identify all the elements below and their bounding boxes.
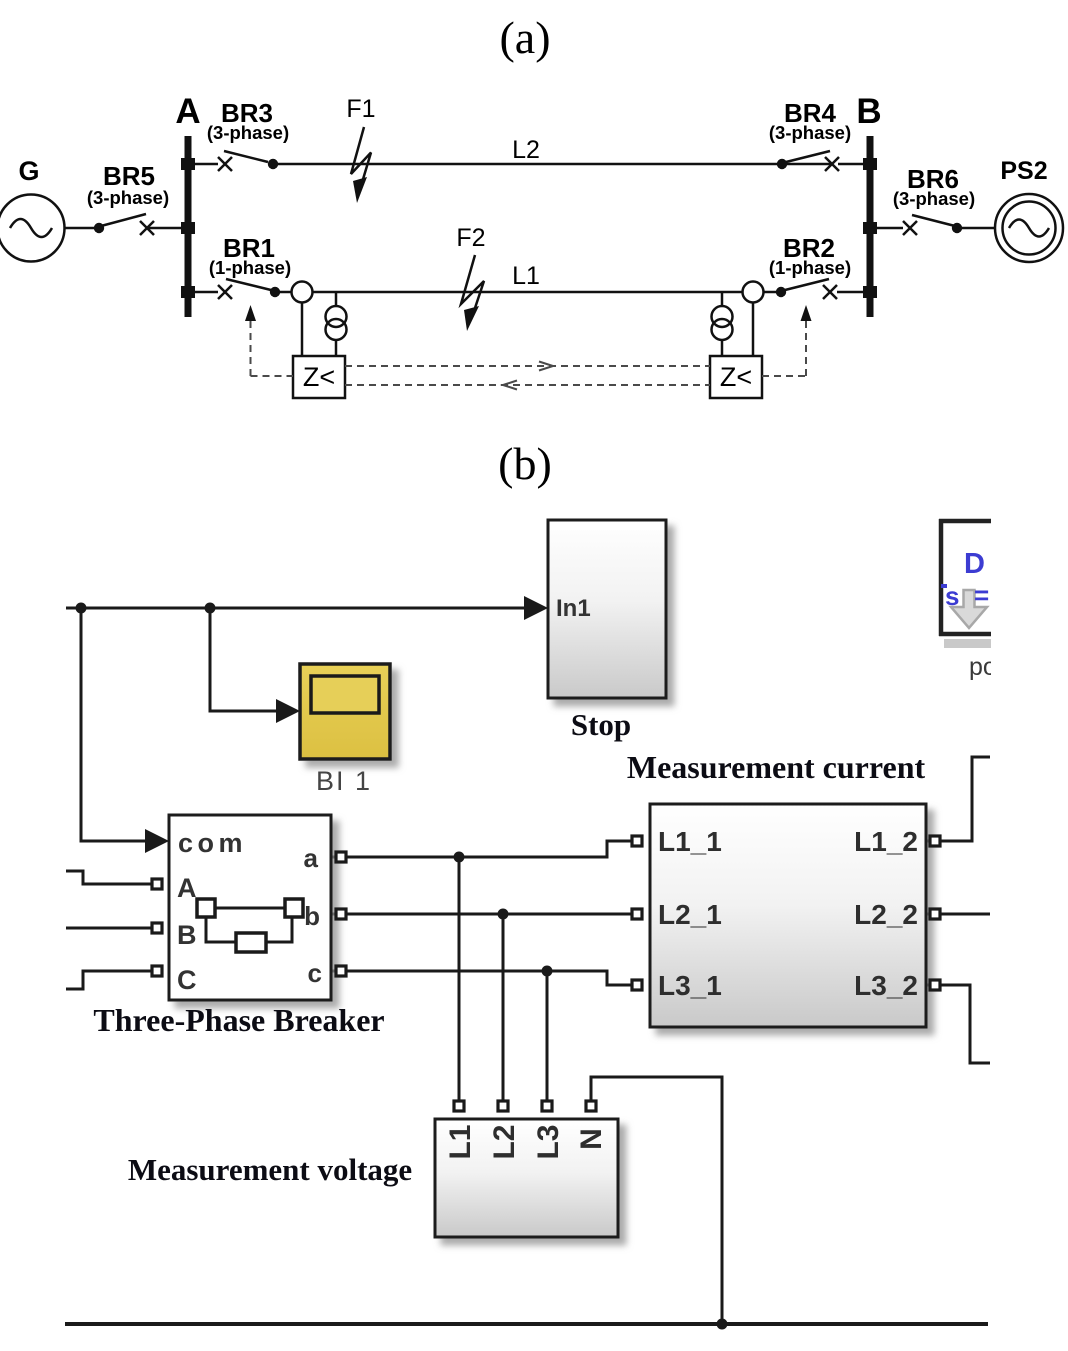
wire bus A to BR1 (191, 291, 218, 294)
arrowhead into Stop (524, 596, 548, 620)
port square A (152, 879, 162, 889)
block Measurement current (650, 804, 926, 1027)
svg-text:com: com (178, 828, 247, 858)
wire breaker b to L2_1 (331, 913, 632, 916)
svg-text:G: G (18, 156, 39, 186)
wire A input (66, 871, 152, 884)
port square B (152, 923, 162, 933)
svg-text:(1-phase): (1-phase) (769, 257, 851, 278)
port square voltage L3 (542, 1101, 552, 1111)
svg-text:Z<: Z< (303, 362, 335, 392)
block powergui (939, 519, 991, 648)
svg-text:b: b (304, 901, 320, 931)
svg-text:(b): (b) (498, 438, 552, 489)
svg-text:L2_1: L2_1 (658, 899, 722, 930)
wire top horizontal to Stop (66, 607, 530, 610)
breaker BR6 X (903, 221, 917, 235)
wire bus B to BR6 (873, 227, 903, 230)
port square L1_1 (632, 836, 642, 846)
communication arrow right (539, 362, 553, 371)
breaker BR1 blade (226, 279, 271, 290)
svg-text:L1_1: L1_1 (658, 826, 722, 857)
trip arrowhead right (801, 305, 812, 321)
breaker BR6 blade (912, 215, 955, 226)
port square L2_2 (930, 909, 940, 919)
svg-text:Measurement current: Measurement current (627, 749, 926, 785)
relay Z< right box (710, 356, 762, 398)
svg-text:PS2: PS2 (1000, 157, 1047, 185)
wire BR2 to bus B (837, 291, 867, 294)
generator G sine (10, 219, 52, 237)
generator G circle (0, 195, 65, 262)
wire L3_2 down (926, 985, 990, 1063)
svg-text:A: A (177, 873, 197, 903)
wire L1_2 up (926, 757, 990, 841)
port square L3_2 (930, 980, 940, 990)
title powergui (969, 653, 997, 681)
wire breaker a to L1_1 (331, 841, 632, 857)
junction dot a (454, 852, 465, 863)
VT left drop wire (335, 340, 338, 356)
junction dot top wire 1 (76, 603, 87, 614)
svg-text:(a): (a) (499, 12, 550, 63)
arrowhead into com (145, 829, 169, 853)
wire C input (66, 971, 152, 989)
CT right drop wire (752, 303, 755, 357)
breaker BR3 blade (224, 151, 268, 162)
svg-text:BI 1: BI 1 (316, 766, 372, 796)
svg-text:D: D (964, 548, 985, 580)
VT right drop wire (721, 340, 724, 356)
svg-text:L3: L3 (532, 1124, 565, 1159)
breaker BR2 blade (785, 279, 829, 290)
wire vertical to BI 1 (210, 608, 282, 711)
svg-text:L2: L2 (488, 1124, 521, 1159)
scope screen (311, 676, 379, 713)
node dot BR5 (94, 223, 104, 233)
arrowhead into BI 1 (276, 699, 300, 723)
port square L2_1 (632, 909, 642, 919)
CT left drop wire (301, 303, 304, 357)
svg-text:Measurement voltage: Measurement voltage (128, 1152, 412, 1187)
svg-text:N: N (575, 1128, 608, 1150)
svg-text:L1: L1 (512, 262, 540, 290)
node dot BR6 (952, 223, 962, 233)
powergui left text tick (941, 584, 947, 588)
breaker BR3 X (218, 157, 232, 171)
svg-text:Z<: Z< (720, 362, 752, 392)
wire breaker c to L3_1 (331, 971, 632, 985)
wire BR6 to PS2 (957, 227, 995, 230)
line L2 wire (273, 163, 832, 166)
svg-text:(3-phase): (3-phase) (893, 188, 975, 209)
communication dashed line lower (345, 384, 710, 386)
svg-text:L1: L1 (444, 1124, 477, 1159)
CT left circle (292, 282, 313, 303)
bus B (863, 136, 877, 317)
port square a (336, 852, 346, 862)
junction dot top wire 2 (205, 603, 216, 614)
port square b (336, 909, 346, 919)
breaker BR4 X (825, 157, 839, 171)
node dot BR4 (777, 159, 787, 169)
ground bus bottom (65, 1322, 988, 1326)
CT right circle (743, 282, 764, 303)
communication arrow left (503, 381, 517, 390)
wire L2_2 (926, 913, 990, 916)
wire BR5 to bus A (147, 227, 185, 230)
port square L3_1 (632, 980, 642, 990)
block BI 1 scope (300, 664, 390, 759)
svg-text:F2: F2 (456, 224, 485, 252)
node dot BR1 (270, 287, 280, 297)
trip dashed path left (251, 321, 294, 376)
svg-text:(3-phase): (3-phase) (207, 122, 289, 143)
block Measurement voltage (435, 1119, 618, 1237)
relay Z< left box (293, 356, 345, 398)
svg-text:s: s (945, 581, 959, 611)
svg-text:a: a (304, 843, 319, 873)
source PS2 sine (1009, 220, 1049, 237)
port square C (152, 966, 162, 976)
VT left transformer circles (326, 306, 347, 340)
bus A (181, 136, 195, 317)
svg-text:In1: In1 (556, 595, 591, 622)
node dot BR2 (776, 287, 786, 297)
svg-text:(1-phase): (1-phase) (209, 257, 291, 278)
breaker BR4 blade (786, 151, 830, 162)
VT right tap wire (721, 292, 724, 306)
svg-text:L3_2: L3_2 (854, 970, 918, 1001)
wire vertical to com (81, 608, 150, 841)
block Stop (548, 520, 666, 698)
svg-text:B: B (856, 92, 881, 131)
trip arrowhead left (245, 305, 256, 321)
junction dot b (498, 909, 509, 920)
svg-text:Stop: Stop (571, 707, 631, 742)
trip dashed path right (762, 321, 806, 376)
svg-text:(3-phase): (3-phase) (769, 122, 851, 143)
breaker internal icon (197, 899, 303, 952)
svg-text:L3_1: L3_1 (658, 970, 722, 1001)
breaker BR5 X (140, 221, 154, 235)
powergui arrow (951, 590, 987, 628)
port square c (336, 966, 346, 976)
wire bus A to BR3 (191, 163, 218, 166)
wire G to BR5 (65, 227, 100, 230)
block Three-Phase Breaker (169, 815, 331, 1000)
port square voltage N (586, 1101, 596, 1111)
port square voltage L1 (454, 1101, 464, 1111)
svg-text:F1: F1 (346, 95, 375, 123)
junction dot bottom bus (717, 1319, 728, 1330)
source PS2 inner circle (1003, 202, 1056, 255)
svg-text:A: A (175, 92, 200, 131)
wire drop a to voltage L1 (458, 857, 461, 1101)
wire drop c to voltage L3 (546, 971, 549, 1101)
wire B input (66, 927, 152, 930)
svg-text:L2_2: L2_2 (854, 899, 918, 930)
svg-text:C: C (177, 965, 197, 995)
junction dot c (542, 966, 553, 977)
VT right transformer circles (712, 306, 733, 340)
wire drop b to voltage L2 (502, 914, 505, 1101)
port square voltage L2 (498, 1101, 508, 1111)
node dot BR3 (268, 159, 278, 169)
svg-text:L2: L2 (512, 136, 540, 164)
line L1 wire (275, 291, 781, 294)
breaker BR5 blade (101, 214, 146, 226)
svg-text:B: B (177, 920, 197, 950)
svg-text:Three-Phase Breaker: Three-Phase Breaker (93, 1002, 384, 1038)
wire voltage N up and over (591, 1077, 722, 1322)
source PS2 outer circle (995, 194, 1063, 262)
communication dashed line upper (345, 365, 710, 367)
port square L1_2 (930, 836, 940, 846)
fault F1 bolt (351, 127, 371, 203)
VT left tap wire (335, 292, 338, 306)
breaker BR2 X (823, 285, 837, 299)
breaker BR1 X (218, 285, 232, 299)
svg-text:po: po (969, 653, 997, 681)
svg-text:c: c (308, 958, 322, 988)
svg-text:L1_2: L1_2 (854, 826, 918, 857)
svg-text:=: = (974, 580, 989, 610)
fault F2 bolt (461, 255, 484, 331)
wire BR4 to bus B (838, 163, 867, 166)
svg-text:(3-phase): (3-phase) (87, 187, 169, 208)
